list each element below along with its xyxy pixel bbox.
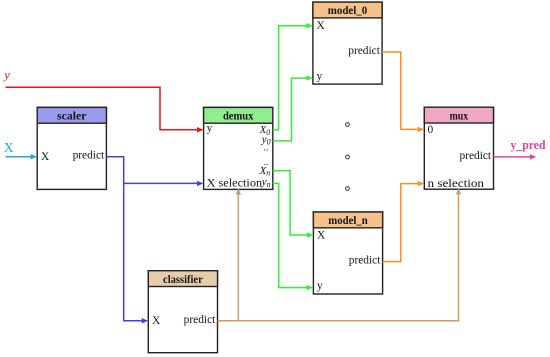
svg-text:model_n: model_n — [328, 215, 368, 227]
svg-text:predict: predict — [349, 255, 381, 267]
svg-text:scaler: scaler — [57, 111, 87, 123]
svg-text:predict: predict — [459, 150, 491, 162]
svg-text:X: X — [317, 229, 326, 241]
svg-text:..: .. — [264, 142, 269, 153]
svg-text:..: .. — [264, 157, 269, 168]
svg-text:classifier: classifier — [163, 274, 203, 286]
svg-text:X: X — [317, 20, 326, 32]
svg-text:demux: demux — [223, 111, 254, 123]
svg-text:y_pred: y_pred — [511, 138, 546, 152]
svg-text:y: y — [317, 280, 323, 292]
svg-text:n selection: n selection — [428, 178, 485, 190]
svg-text:X selection: X selection — [207, 178, 263, 190]
svg-text:mux: mux — [450, 110, 469, 122]
svg-text:predict: predict — [73, 150, 105, 162]
svg-text:X: X — [41, 151, 50, 163]
svg-text:X: X — [152, 315, 161, 327]
svg-text:X: X — [4, 140, 14, 155]
svg-text:y: y — [317, 71, 323, 83]
svg-text:0: 0 — [428, 124, 434, 136]
svg-text:model_0: model_0 — [328, 5, 368, 17]
svg-text:predict: predict — [184, 314, 216, 326]
svg-text:y: y — [2, 68, 10, 82]
svg-text:predict: predict — [348, 45, 380, 57]
svg-text:y: y — [207, 122, 213, 134]
